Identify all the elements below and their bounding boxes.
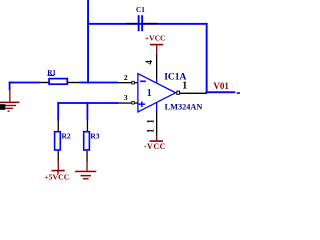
wire inverting net R1 to pin2 — [79, 82, 118, 84]
resistor R1 label underline — [48, 75, 55, 76]
svg-text:R3: R3 — [90, 131, 99, 140]
svg-text:V01: V01 — [213, 81, 229, 91]
capacitor C1 plate left — [138, 15, 140, 31]
power +5VCC bar — [52, 170, 65, 172]
resistor R3 pin bottom black — [86, 151, 87, 162]
resistor R1 pin left — [40, 82, 49, 83]
op-amp plus mark — [139, 103, 145, 105]
svg-text:+5VCC: +5VCC — [44, 172, 70, 181]
op-amp pin 2 stub — [117, 82, 138, 83]
capacitor C1 plate right — [141, 15, 143, 31]
wire feedback right vertical — [206, 23, 208, 93]
svg-text:C1: C1 — [136, 6, 145, 14]
svg-text:IC1A: IC1A — [164, 73, 186, 83]
svg-text:-VCC: -VCC — [144, 142, 166, 151]
power +5VCC stem tick through label — [57, 171, 58, 174]
op-amp pin 4 line black — [156, 54, 157, 79]
svg-text:+VCC: +VCC — [145, 33, 166, 42]
resistor R2 pin bottom black — [58, 151, 59, 162]
op-amp pin 2 square — [132, 81, 135, 84]
op-amp pin 1 square — [177, 91, 180, 94]
ground (under R3) bar 1 — [75, 171, 96, 173]
svg-text:LM324AN: LM324AN — [165, 102, 203, 111]
ground (input) black square marker — [0, 104, 5, 110]
op-amp U1 triangle — [138, 74, 176, 112]
wire feedback top horizontal — [87, 23, 208, 25]
ground (under R3) bar 2 — [81, 175, 91, 177]
resistor R3 body — [84, 132, 90, 150]
power +VCC stem red — [156, 45, 157, 54]
ground (under R3) stem red — [86, 162, 87, 171]
power +VCC bar — [150, 44, 163, 46]
wire noninverting net horizontal — [57, 102, 118, 104]
wire output stub right edge — [237, 92, 240, 94]
op-amp pin 1 output stub — [180, 93, 207, 94]
wire input net vertical drop to ground — [9, 82, 11, 91]
ground (input, left) stem red — [9, 90, 10, 102]
svg-text:1: 1 — [147, 88, 152, 99]
resistor R2 pin top — [58, 120, 59, 131]
ground (input) bar 1 — [0, 102, 19, 104]
capacitor C1 pin right — [143, 23, 157, 25]
op-amp minus mark — [140, 81, 146, 83]
ground (input) bar 4 — [8, 111, 10, 112]
capacitor C1 pin left — [126, 23, 138, 25]
wire output net horizontal — [206, 91, 236, 93]
wire input net horizontal — [9, 82, 40, 84]
op-amp pin 3 square — [132, 101, 135, 104]
svg-text:2: 2 — [124, 73, 128, 82]
power -VCC bar — [150, 140, 163, 142]
wire vertical to R2 — [57, 102, 59, 120]
ground (input) bar 2 — [4, 105, 16, 106]
op-amp pin 11 line black — [156, 111, 157, 136]
power +5VCC stem red — [58, 162, 59, 170]
resistor R1 pin right — [68, 82, 79, 83]
wire feedback vertical (net to top edge) — [87, 0, 89, 83]
power -VCC stem red — [156, 136, 157, 140]
ground (under R3) bar 3 — [83, 178, 89, 179]
resistor R2 body — [55, 132, 61, 150]
op-amp pin 4 line blue tip — [156, 79, 157, 83]
resistor R3 pin top — [87, 120, 88, 131]
resistor R1 body — [49, 79, 67, 85]
svg-text:4: 4 — [144, 60, 154, 65]
svg-text:3: 3 — [124, 93, 128, 102]
ground (input) bar 3 — [6, 108, 13, 109]
svg-text:R2: R2 — [62, 131, 71, 140]
op-amp pin 11 line blue tip — [156, 103, 157, 111]
wire vertical to R3 — [87, 102, 89, 120]
svg-text:11: 11 — [145, 114, 155, 134]
op-amp pin 3 stub — [117, 102, 138, 103]
